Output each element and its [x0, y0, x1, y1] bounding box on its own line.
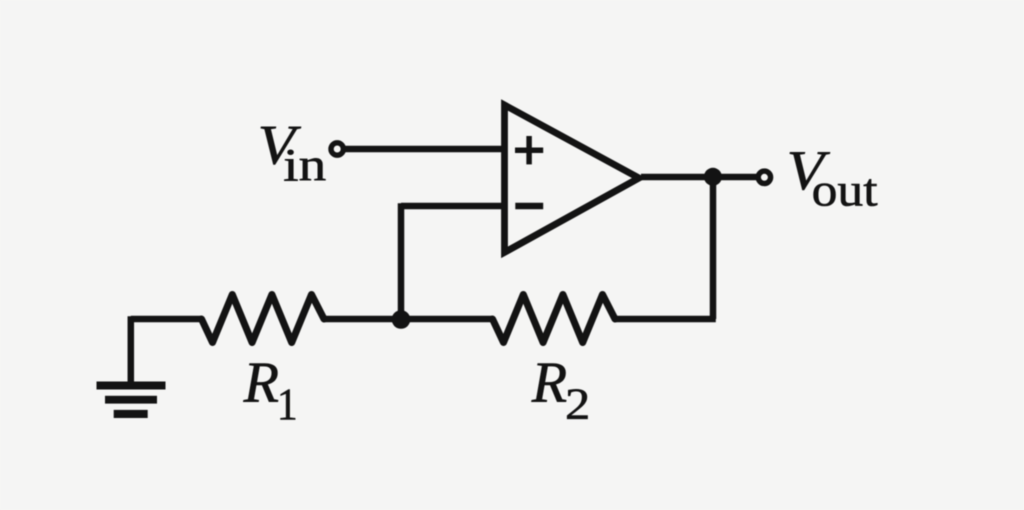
wire Vin to op-amp + input: [340, 146, 505, 153]
resistor R2 zigzag: [493, 295, 616, 343]
svg-text:in: in: [283, 139, 326, 191]
svg-text:1: 1: [277, 379, 298, 430]
wire output junction down to R2: [710, 177, 717, 319]
wire node to R2 left side: [401, 316, 493, 323]
label Vout: [787, 140, 878, 216]
ground symbol: [97, 382, 166, 419]
label R1: [243, 350, 298, 430]
label R2: [531, 350, 591, 429]
wire op-amp output to Vout terminal: [641, 174, 758, 181]
svg-text:2: 2: [565, 380, 590, 429]
svg-text:out: out: [812, 164, 878, 216]
wire ground vertical: [128, 316, 135, 383]
op-amp non-inverting + input symbol: [515, 136, 543, 164]
terminal Vin open circle: [331, 143, 343, 155]
terminal Vout open circle: [758, 171, 770, 183]
svg-text:R: R: [243, 350, 279, 415]
svg-text:R: R: [531, 350, 567, 415]
node junction dot at R1/R2/feedback: [392, 310, 411, 329]
label Vin: [258, 115, 327, 192]
wire feedback vertical: [398, 203, 405, 319]
wire feedback horizontal to op-amp - input: [401, 203, 505, 210]
wire R2 right side: [615, 316, 716, 323]
op-amp inverting - input symbol: [515, 203, 543, 210]
resistor R1 zigzag: [202, 295, 325, 343]
wire R1 right side to node: [324, 316, 401, 323]
node junction dot at output: [704, 168, 722, 186]
op-amp U1 triangle: [505, 105, 640, 252]
wire ground to R1 left side: [131, 316, 202, 323]
